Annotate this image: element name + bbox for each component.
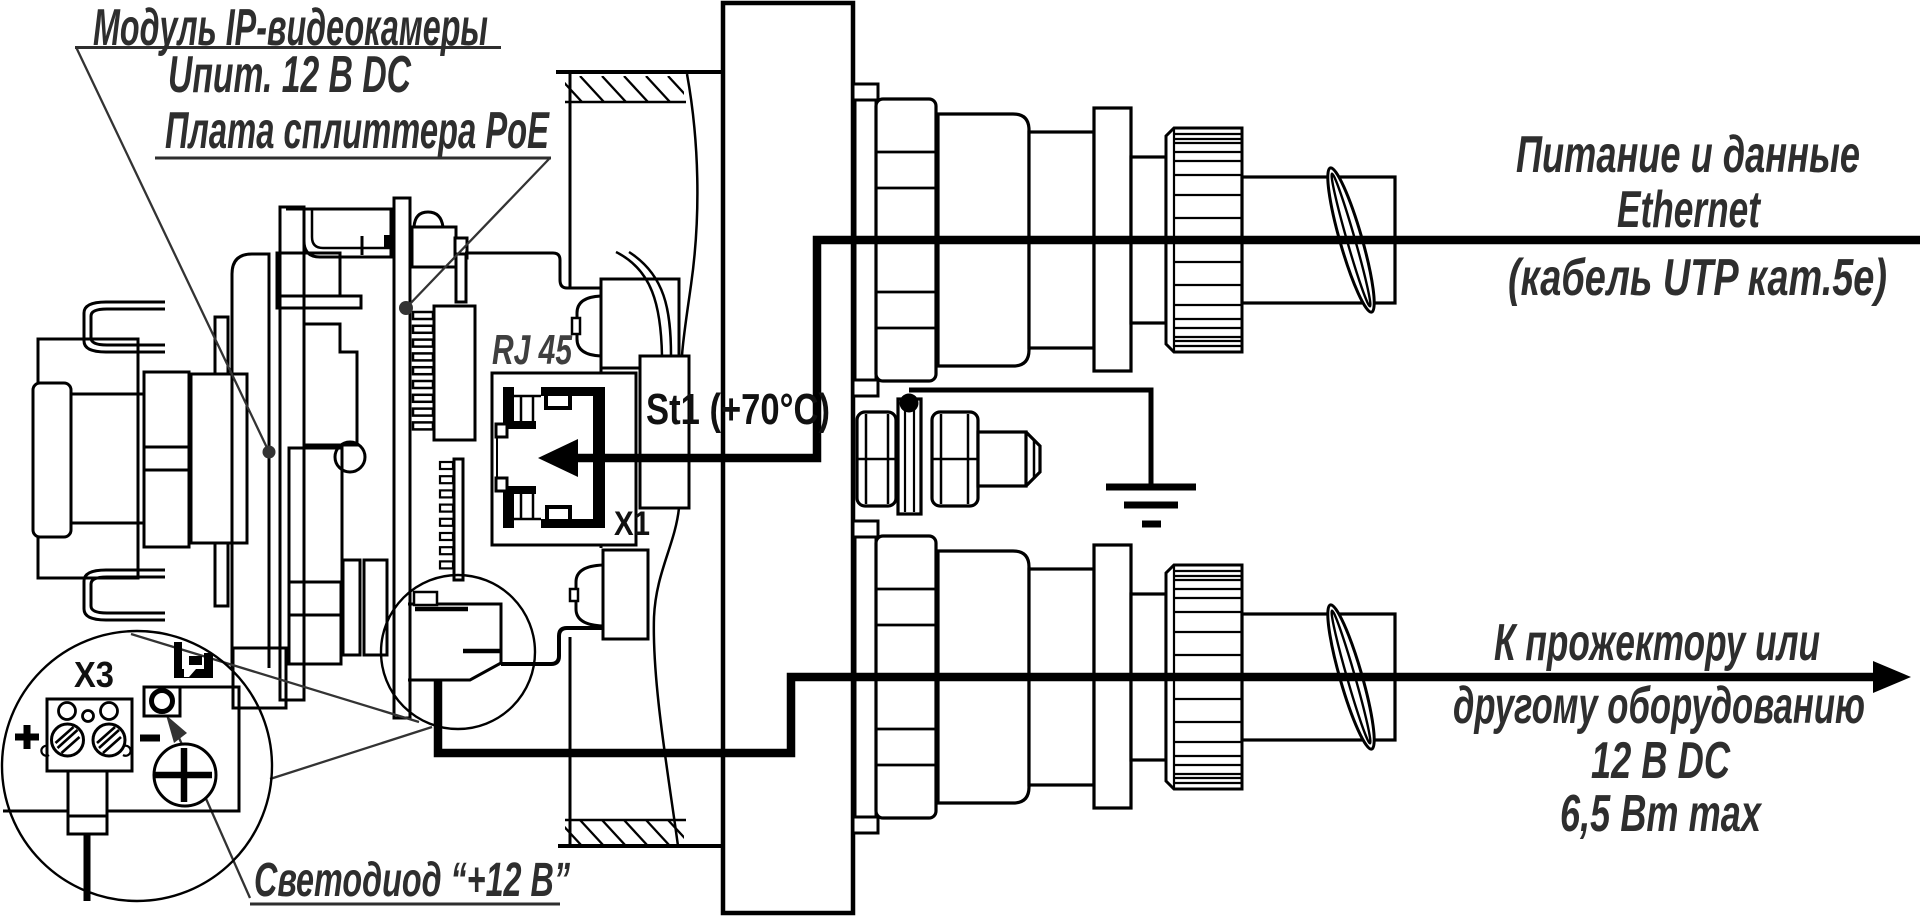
svg-text:Светодиод “+12 В”: Светодиод “+12 В” [254, 854, 570, 907]
svg-text:другому оборудованию: другому оборудованию [1453, 677, 1865, 735]
svg-text:Питание и данные: Питание и данные [1516, 126, 1860, 184]
svg-text:X1: X1 [614, 505, 650, 543]
svg-text:RJ 45: RJ 45 [492, 326, 572, 373]
svg-text:6,5 Вт max: 6,5 Вт max [1560, 785, 1762, 843]
svg-text:(кабель UTP кат.5е): (кабель UTP кат.5е) [1508, 249, 1887, 307]
svg-text:Плата сплиттера PoE: Плата сплиттера PoE [165, 102, 550, 160]
svg-text:Uпит. 12 В DC: Uпит. 12 В DC [168, 46, 412, 104]
svg-text:X3: X3 [74, 654, 114, 695]
svg-text:12 В DC: 12 В DC [1591, 732, 1731, 790]
svg-text:К прожектору или: К прожектору или [1494, 614, 1820, 672]
svg-text:St1 (+70°C): St1 (+70°C) [646, 385, 830, 434]
svg-text:Ethernet: Ethernet [1617, 181, 1762, 239]
